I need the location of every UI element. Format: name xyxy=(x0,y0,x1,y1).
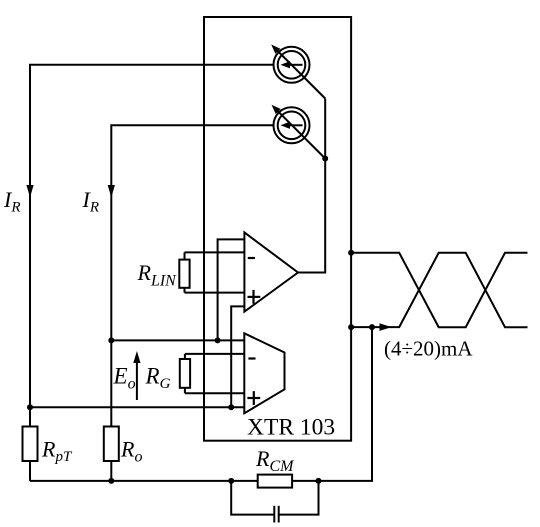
svg-text:RG: RG xyxy=(145,364,171,393)
arrow E_o xyxy=(133,351,140,400)
node: junction A1 bottom vertical on rail xyxy=(228,404,234,410)
svg-text:RpT: RpT xyxy=(41,437,73,466)
arrow I_R 1 xyxy=(26,185,33,198)
wire: A1 top pin to vertical xyxy=(218,239,245,340)
wire: bottom bus left xyxy=(30,480,258,482)
XTR103 box U1 xyxy=(204,17,351,441)
node: return wire junction xyxy=(369,324,375,330)
node: capacitor tap right xyxy=(316,478,322,484)
resistor R_G xyxy=(180,354,190,393)
wire R_pT to bottom bus xyxy=(29,461,31,481)
wire: A1 non-inverting input xyxy=(185,292,245,294)
resistor R_o xyxy=(104,427,119,462)
node: junction on left rail xyxy=(27,404,33,410)
wire: bottom bus right xyxy=(292,327,372,481)
wire: A2 non-inverting input xyxy=(185,392,244,394)
current source 1 xyxy=(271,45,325,99)
node: capacitor tap left xyxy=(228,478,234,484)
wire: A2 top pin rail xyxy=(111,339,244,341)
wire from current source 2 to middle rail xyxy=(111,125,274,426)
current source 2 xyxy=(272,105,326,159)
capacitor C1 branch xyxy=(231,481,318,523)
wire R_o to bottom bus xyxy=(110,461,112,481)
wire: bottom pin rail from left rail to A2 xyxy=(30,406,244,408)
svg-text:Ro: Ro xyxy=(120,437,142,466)
resistor R_pT xyxy=(23,427,38,462)
svg-text:Eo: Eo xyxy=(113,364,136,393)
wire: output vertical from current sources to op-amp output xyxy=(298,99,325,273)
svg-text:IR: IR xyxy=(3,187,21,216)
arrow I_R 2 xyxy=(108,185,115,198)
svg-text:RCM: RCM xyxy=(255,446,295,475)
node: junction of source 2 diagonal on output vertical xyxy=(322,156,328,162)
node: bottom output pin xyxy=(348,324,354,330)
node: top output pin xyxy=(348,250,354,256)
svg-text:RLIN: RLIN xyxy=(137,260,178,290)
twisted pair bottom wire xyxy=(351,253,527,327)
wire: A2 inverting input xyxy=(185,353,244,355)
instrumentation amp A2 xyxy=(244,333,284,413)
op-amp A1 xyxy=(244,232,298,311)
twisted pair top wire xyxy=(351,253,527,327)
resistor R_LIN xyxy=(179,252,189,292)
svg-text:IR: IR xyxy=(82,187,100,216)
svg-text:(4÷20)mA: (4÷20)mA xyxy=(384,337,473,361)
resistor R_CM xyxy=(258,475,292,488)
node: R_o junction on bottom bus xyxy=(108,478,114,484)
node: junction middle rail on A2 top pin wire xyxy=(108,337,114,343)
arrow: loop current direction xyxy=(380,323,392,331)
svg-text:XTR 103: XTR 103 xyxy=(247,415,335,441)
wire: A1 bottom pin to vertical xyxy=(231,306,244,407)
wire: A1 inverting input xyxy=(185,251,245,253)
wire from current source 1 to left rail xyxy=(30,65,274,427)
node: junction A1 vertical on A2 top pin wire xyxy=(215,337,221,343)
